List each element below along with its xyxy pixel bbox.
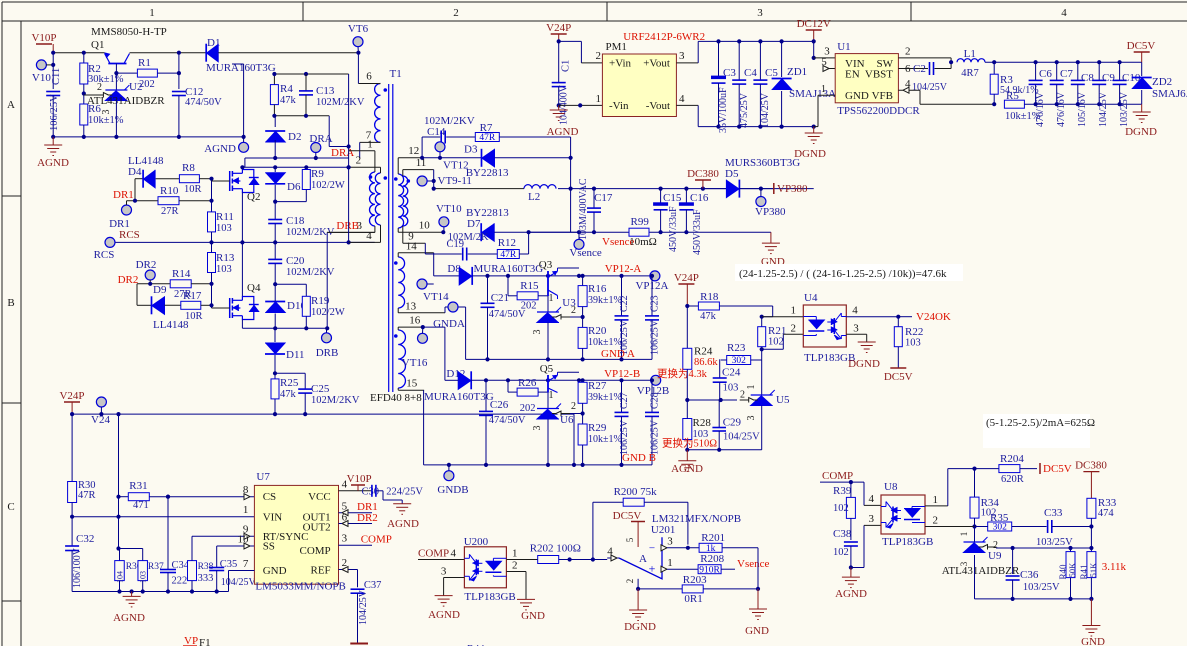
wire V24 rail drop to GNDB xyxy=(573,414,575,465)
resistor R40 xyxy=(1070,548,1072,552)
resistor R6 xyxy=(80,104,88,125)
svg-text:R13: R13 xyxy=(216,252,235,264)
wire OUT1 pin5 xyxy=(339,512,373,514)
svg-text:1: 1 xyxy=(549,293,554,304)
svg-text:C27: C27 xyxy=(619,392,630,409)
wire R201 drop xyxy=(757,548,759,589)
wire pin14 to D8 xyxy=(433,253,435,276)
svg-text:1: 1 xyxy=(821,84,826,95)
node R18 tap xyxy=(685,304,689,308)
svg-text:DR2: DR2 xyxy=(136,259,157,271)
svg-text:103: 103 xyxy=(216,223,232,234)
svg-text:R31: R31 xyxy=(129,480,147,492)
svg-text:(5-1.25-2.5)/2mA=625Ω: (5-1.25-2.5)/2mA=625Ω xyxy=(986,417,1095,429)
wire RCS rail xyxy=(110,241,375,243)
svg-text:+Vout: +Vout xyxy=(643,58,670,70)
svg-text:C6: C6 xyxy=(1039,68,1052,80)
resistor R5 xyxy=(1004,100,1024,108)
svg-text:2: 2 xyxy=(596,50,602,62)
svg-text:C25: C25 xyxy=(311,383,330,395)
svg-text:2: 2 xyxy=(356,155,362,167)
svg-text:COMP: COMP xyxy=(822,470,853,482)
svg-text:R9: R9 xyxy=(311,168,324,180)
wire U9 bottom rail xyxy=(975,598,1092,600)
node R2-R6 xyxy=(83,84,85,104)
svg-text:+Vin: +Vin xyxy=(609,58,632,70)
wire D3 out xyxy=(495,157,571,159)
svg-text:10k±1%: 10k±1% xyxy=(588,434,622,445)
svg-text:SMAJ6.0: SMAJ6.0 xyxy=(1152,88,1187,100)
svg-text:GND: GND xyxy=(845,90,869,102)
svg-text:MURA160T3G: MURA160T3G xyxy=(474,263,544,275)
svg-text:L2: L2 xyxy=(528,191,540,203)
svg-text:3: 3 xyxy=(667,536,673,548)
svg-text:10R: 10R xyxy=(184,184,202,195)
formula text 47.6k xyxy=(735,264,963,281)
capacitor C9 xyxy=(1098,62,1100,80)
svg-text:D5: D5 xyxy=(725,168,739,180)
svg-text:10k±1%: 10k±1% xyxy=(88,115,124,126)
svg-text:R25: R25 xyxy=(280,377,299,389)
resistor R28 xyxy=(683,419,692,440)
transformer winding 14-13 xyxy=(398,257,404,308)
svg-text:DGND: DGND xyxy=(848,358,880,370)
wire Vsence rail xyxy=(529,231,771,233)
wire OUT2 pin6 xyxy=(339,523,373,525)
svg-text:GNDA: GNDA xyxy=(433,318,465,330)
svg-text:103/25V: 103/25V xyxy=(1119,91,1130,127)
pad V24 xyxy=(96,397,106,407)
svg-text:C21: C21 xyxy=(491,292,509,304)
svg-text:450V/33uF: 450V/33uF xyxy=(668,206,679,252)
svg-text:DC5V: DC5V xyxy=(1043,463,1072,475)
wire U3 anode xyxy=(547,323,549,360)
svg-text:AGND: AGND xyxy=(428,609,460,621)
svg-text:3: 3 xyxy=(532,330,543,335)
svg-text:V10P: V10P xyxy=(347,473,372,485)
wire U4 pin1 xyxy=(760,315,764,319)
pad VT6 xyxy=(353,37,363,47)
capacitor C18 xyxy=(274,202,276,220)
diode D2 xyxy=(274,116,276,127)
wire R36R37 feed xyxy=(118,517,120,549)
ground AGND PM1 xyxy=(558,105,560,110)
svg-text:51K: 51K xyxy=(1088,562,1098,578)
svg-text:474/50V: 474/50V xyxy=(185,97,222,108)
wire pin15 drop xyxy=(423,390,425,465)
svg-text:106/25V: 106/25V xyxy=(650,419,661,455)
wire GNDA rail xyxy=(466,358,652,360)
svg-text:R20: R20 xyxy=(588,325,607,337)
wire C11 branch xyxy=(52,53,54,89)
svg-text:R202: R202 xyxy=(530,543,554,555)
IC U7 LM5033MM/NOPB xyxy=(254,485,338,584)
svg-text:C33: C33 xyxy=(1044,507,1063,519)
resistor R37 xyxy=(138,561,148,581)
pad VT9-11 xyxy=(433,170,435,189)
svg-text:C16: C16 xyxy=(690,192,709,204)
svg-text:VIN: VIN xyxy=(263,512,283,524)
svg-text:104/25V: 104/25V xyxy=(912,82,948,93)
resistor R10 xyxy=(158,197,179,205)
svg-text:BY22813: BY22813 xyxy=(466,167,509,179)
svg-text:GND: GND xyxy=(263,565,287,577)
capacitor C32 xyxy=(71,517,73,546)
svg-text:10mΩ: 10mΩ xyxy=(629,236,657,248)
diode D11 xyxy=(274,328,276,342)
wire D11 to R25 xyxy=(274,355,276,379)
wire VCC pin4 xyxy=(339,490,372,492)
wire Q1 collector to D1 xyxy=(130,52,207,54)
inductor L2 xyxy=(434,188,524,190)
resistor R13 xyxy=(208,253,216,273)
wire U8 pin3 xyxy=(851,567,864,569)
wire REF pin2 xyxy=(339,569,358,571)
wire U1 GND pin1 xyxy=(818,94,835,96)
svg-text:Q1: Q1 xyxy=(91,39,104,51)
svg-text:R12: R12 xyxy=(498,237,516,249)
capacitor C20 xyxy=(274,242,276,259)
capacitor C4 xyxy=(738,41,740,80)
svg-text:VCC: VCC xyxy=(308,491,331,503)
net label V24OK xyxy=(898,316,912,318)
svg-text:V10: V10 xyxy=(32,72,51,84)
svg-text:4: 4 xyxy=(1061,7,1067,19)
transformer T1 core xyxy=(388,84,390,392)
svg-text:1: 1 xyxy=(549,390,554,401)
svg-text:GND A: GND A xyxy=(601,348,635,360)
svg-text:5: 5 xyxy=(821,56,827,68)
capacitor C23 xyxy=(650,274,654,278)
svg-text:102: 102 xyxy=(833,547,849,558)
svg-text:AGND: AGND xyxy=(37,157,69,169)
svg-text:TLP183GB: TLP183GB xyxy=(882,536,933,548)
svg-text:27R: 27R xyxy=(161,206,179,217)
resistor R25 xyxy=(271,379,279,399)
svg-text:R24: R24 xyxy=(694,346,713,358)
svg-text:10k±1%: 10k±1% xyxy=(588,337,622,348)
svg-text:4: 4 xyxy=(869,493,875,505)
pin 2 xyxy=(349,166,381,168)
ground DGND U201 xyxy=(637,589,639,610)
svg-text:ZD2: ZD2 xyxy=(1152,76,1172,88)
svg-text:2: 2 xyxy=(932,515,938,527)
capacitor C7 xyxy=(1056,62,1058,80)
svg-text:10R: 10R xyxy=(185,311,203,322)
svg-text:10: 10 xyxy=(419,220,431,232)
svg-text:AGND: AGND xyxy=(547,126,579,138)
IC U3 TL431 xyxy=(537,311,559,313)
svg-text:D7: D7 xyxy=(467,218,481,230)
wire DC5V rail xyxy=(985,61,1142,63)
wire U201 pin3 xyxy=(662,547,699,549)
resistor R38 xyxy=(188,561,197,581)
svg-text:R208: R208 xyxy=(700,553,724,565)
wire V24 to R30 xyxy=(71,414,73,481)
svg-text:C14: C14 xyxy=(427,126,446,138)
svg-text:C7: C7 xyxy=(1060,68,1073,80)
resistor R11 xyxy=(208,212,216,232)
svg-text:GNDB: GNDB xyxy=(437,484,468,496)
wire VP12-B rail xyxy=(579,379,656,381)
svg-text:B: B xyxy=(7,297,14,309)
svg-text:14: 14 xyxy=(406,241,418,253)
svg-text:D6: D6 xyxy=(287,181,301,193)
capacitor C12 xyxy=(172,91,186,93)
zener ZD1 SMAJ13A xyxy=(781,41,783,77)
svg-text:C1: C1 xyxy=(561,60,572,72)
svg-text:C13: C13 xyxy=(316,85,335,97)
svg-text:U201: U201 xyxy=(651,524,675,536)
svg-text:R99: R99 xyxy=(631,216,650,228)
resistor R203 xyxy=(638,588,682,590)
resistor R26 xyxy=(507,380,509,392)
svg-text:102M/2KV: 102M/2KV xyxy=(316,97,365,108)
svg-text:476/16V: 476/16V xyxy=(1035,91,1046,127)
svg-text:LM5033MM/NOPB: LM5033MM/NOPB xyxy=(255,581,345,593)
pin 4 xyxy=(349,241,381,243)
svg-text:C28: C28 xyxy=(650,392,661,409)
resistor R8 xyxy=(179,175,199,183)
svg-text:L1: L1 xyxy=(964,48,976,60)
wire GNDB rail xyxy=(424,464,652,466)
capacitor C37 xyxy=(357,570,359,588)
svg-text:V24: V24 xyxy=(91,414,110,426)
svg-text:R29: R29 xyxy=(588,422,607,434)
svg-text:50K: 50K xyxy=(1067,562,1077,578)
svg-text:ZD1: ZD1 xyxy=(787,66,807,78)
svg-text:D11: D11 xyxy=(286,349,305,361)
svg-text:104/400V: 104/400V xyxy=(559,84,570,125)
wire R7 to drop xyxy=(499,136,570,138)
pad DR1 xyxy=(122,205,132,215)
svg-text:REF: REF xyxy=(311,565,331,577)
svg-text:104/25V: 104/25V xyxy=(1098,91,1109,127)
wire U4 pin3 xyxy=(846,333,866,335)
wire L2 out rail xyxy=(558,188,814,190)
svg-text:6: 6 xyxy=(366,71,372,83)
resistor R41 xyxy=(1090,548,1092,552)
resistor R17 xyxy=(181,301,201,309)
svg-text:U4: U4 xyxy=(804,292,818,304)
svg-text:C5: C5 xyxy=(765,67,778,79)
wire Q2 source xyxy=(241,193,243,243)
wire U5 bottom rail xyxy=(687,449,761,451)
svg-text:C11: C11 xyxy=(51,68,62,85)
svg-text:R28: R28 xyxy=(693,417,712,429)
ground AGND U8 xyxy=(850,568,852,578)
svg-text:C23: C23 xyxy=(650,295,661,312)
capacitor C1 xyxy=(558,41,560,82)
svg-text:V24P: V24P xyxy=(546,22,571,34)
capacitor C5 xyxy=(759,41,761,80)
svg-text:3: 3 xyxy=(441,566,447,578)
capacitor C34 xyxy=(167,497,169,570)
svg-text:3: 3 xyxy=(356,220,362,232)
svg-text:DRB: DRB xyxy=(316,347,339,359)
svg-text:47k: 47k xyxy=(700,311,717,322)
resistor R19 xyxy=(305,284,307,296)
svg-text:103: 103 xyxy=(216,264,232,275)
ground AGND U5 xyxy=(686,450,688,461)
svg-text:URF2412P-6WR2: URF2412P-6WR2 xyxy=(623,31,705,43)
wire U4 pin4 xyxy=(846,316,898,318)
diode D6 xyxy=(274,167,276,172)
svg-text:RCS: RCS xyxy=(119,229,140,241)
svg-text:AGND: AGND xyxy=(835,588,867,600)
svg-text:1: 1 xyxy=(367,139,373,151)
svg-text:102/2W: 102/2W xyxy=(311,180,345,191)
svg-text:DGND: DGND xyxy=(794,148,826,160)
svg-text:47k: 47k xyxy=(280,95,297,106)
svg-text:R5: R5 xyxy=(1006,90,1019,102)
svg-text:VFB: VFB xyxy=(872,90,893,102)
wire U2 ref xyxy=(84,94,95,96)
svg-text:106/25V: 106/25V xyxy=(650,319,661,355)
wire R4C13 top xyxy=(276,73,348,75)
svg-text:R15: R15 xyxy=(520,280,539,292)
svg-text:104/25V: 104/25V xyxy=(221,577,257,588)
svg-text:更换为4.3k: 更换为4.3k xyxy=(657,367,708,380)
port VP bottom xyxy=(350,643,368,645)
wire V24 branch xyxy=(118,414,120,517)
svg-text:U2: U2 xyxy=(129,81,142,93)
svg-text:DGND: DGND xyxy=(1125,126,1157,138)
sheet border frame xyxy=(2,1,1187,3)
svg-text:5: 5 xyxy=(625,537,635,542)
ground GND U9 xyxy=(1090,599,1092,626)
pad VT10 xyxy=(439,217,449,227)
svg-text:(24-1.25-2.5) / ( (24-16-1.25-: (24-1.25-2.5) / ( (24-16-1.25-2.5) /10k)… xyxy=(739,268,947,280)
capacitor C11 xyxy=(46,91,60,93)
svg-text:EN: EN xyxy=(845,69,860,81)
svg-text:GND: GND xyxy=(521,610,545,622)
ground GND R203 xyxy=(757,589,759,609)
wire switch bottom rail xyxy=(242,327,327,329)
svg-text:AGND: AGND xyxy=(113,612,145,624)
capacitor C22 xyxy=(621,276,623,316)
svg-text:U7: U7 xyxy=(256,471,270,483)
power port DC5V under R22 xyxy=(890,367,906,369)
svg-text:1: 1 xyxy=(746,385,757,390)
svg-text:2: 2 xyxy=(993,540,998,551)
wire R204 rail xyxy=(948,468,999,470)
svg-text:LL4148: LL4148 xyxy=(153,319,189,331)
wire snubber vertical xyxy=(348,74,350,242)
wire gate A node xyxy=(211,179,213,212)
svg-text:C15: C15 xyxy=(663,192,682,204)
pin 12 xyxy=(398,157,422,159)
svg-text:AGND: AGND xyxy=(671,463,703,475)
svg-text:R10: R10 xyxy=(160,185,179,197)
wire DR2 xyxy=(136,284,138,306)
pad GNDA xyxy=(448,302,458,312)
node mid B xyxy=(273,282,277,286)
wire VP12-A rail xyxy=(579,275,655,277)
svg-text:GND: GND xyxy=(1081,636,1105,646)
wire D1 to VT6 xyxy=(218,52,358,54)
svg-text:DC5V: DC5V xyxy=(1127,40,1156,52)
resistor R3 xyxy=(993,62,995,74)
svg-text:4: 4 xyxy=(905,78,911,90)
wire pin16 junction xyxy=(421,325,425,329)
svg-text:103: 103 xyxy=(723,383,739,394)
svg-text:CS: CS xyxy=(263,491,276,503)
svg-text:COMP: COMP xyxy=(300,545,331,557)
svg-text:COMP: COMP xyxy=(361,534,392,546)
svg-text:DC380: DC380 xyxy=(687,168,719,180)
svg-text:VP12-A: VP12-A xyxy=(605,263,642,275)
resistor R27 xyxy=(582,380,584,382)
svg-text:ATL431AIDBZR: ATL431AIDBZR xyxy=(87,95,165,107)
svg-text:15: 15 xyxy=(406,378,418,390)
svg-text:13: 13 xyxy=(405,300,417,312)
svg-text:106/25V: 106/25V xyxy=(49,94,60,131)
inductor L1 xyxy=(949,60,953,64)
svg-text:RCS: RCS xyxy=(94,249,115,261)
svg-text:103: 103 xyxy=(905,338,921,349)
svg-text:V10P: V10P xyxy=(31,32,56,44)
svg-text:476/16V: 476/16V xyxy=(1056,91,1067,127)
svg-text:1: 1 xyxy=(932,494,938,506)
svg-text:A: A xyxy=(7,99,15,111)
svg-text:333: 333 xyxy=(198,573,214,584)
pin 16 xyxy=(398,326,423,328)
svg-text:620R: 620R xyxy=(1001,474,1024,485)
wire U1 VBST pin6 xyxy=(898,68,928,70)
wire GNDA riser xyxy=(465,307,467,359)
capacitor C3 xyxy=(718,41,720,78)
wire U2 anode xyxy=(115,101,117,137)
svg-text:4R7: 4R7 xyxy=(961,68,979,79)
svg-text:102M/2K: 102M/2K xyxy=(448,232,489,243)
wire DR1 xyxy=(127,200,159,202)
svg-text:30k±1%: 30k±1% xyxy=(88,74,124,85)
svg-text:103M/400VAC: 103M/400VAC xyxy=(578,178,589,240)
wire VT6 drop xyxy=(357,53,359,84)
svg-text:C24: C24 xyxy=(722,367,741,379)
svg-text:DR1: DR1 xyxy=(113,189,134,201)
pad VP380 xyxy=(756,197,766,207)
power port DC5V tail xyxy=(1039,463,1041,474)
svg-text:C32: C32 xyxy=(76,533,94,545)
svg-text:224/25V: 224/25V xyxy=(386,487,423,498)
svg-text:C4: C4 xyxy=(744,67,757,79)
pad VP12B xyxy=(651,375,661,385)
svg-text:DRA: DRA xyxy=(331,147,354,159)
svg-text:VT14: VT14 xyxy=(423,291,449,303)
svg-text:Q2: Q2 xyxy=(247,191,260,203)
IC U2 ATL431 xyxy=(115,73,117,90)
svg-text:−: − xyxy=(649,543,655,555)
svg-text:C26: C26 xyxy=(490,399,509,411)
svg-text:D2: D2 xyxy=(288,131,301,143)
svg-text:2: 2 xyxy=(571,401,576,412)
svg-text:302: 302 xyxy=(732,356,747,366)
pin 11 xyxy=(403,169,434,171)
resistor R18 xyxy=(687,305,698,307)
wire D12 rail xyxy=(471,379,579,381)
svg-text:3: 3 xyxy=(869,513,875,525)
wire U1 VIN xyxy=(813,41,815,58)
svg-text:TPS562200DDCR: TPS562200DDCR xyxy=(837,105,920,117)
svg-text:C: C xyxy=(7,501,14,513)
svg-text:VT9-11: VT9-11 xyxy=(438,175,472,187)
wire U8 pin1 xyxy=(925,505,948,507)
svg-text:C18: C18 xyxy=(286,215,305,227)
svg-text:47R: 47R xyxy=(500,250,517,260)
transformer winding 6-7 xyxy=(375,84,381,143)
